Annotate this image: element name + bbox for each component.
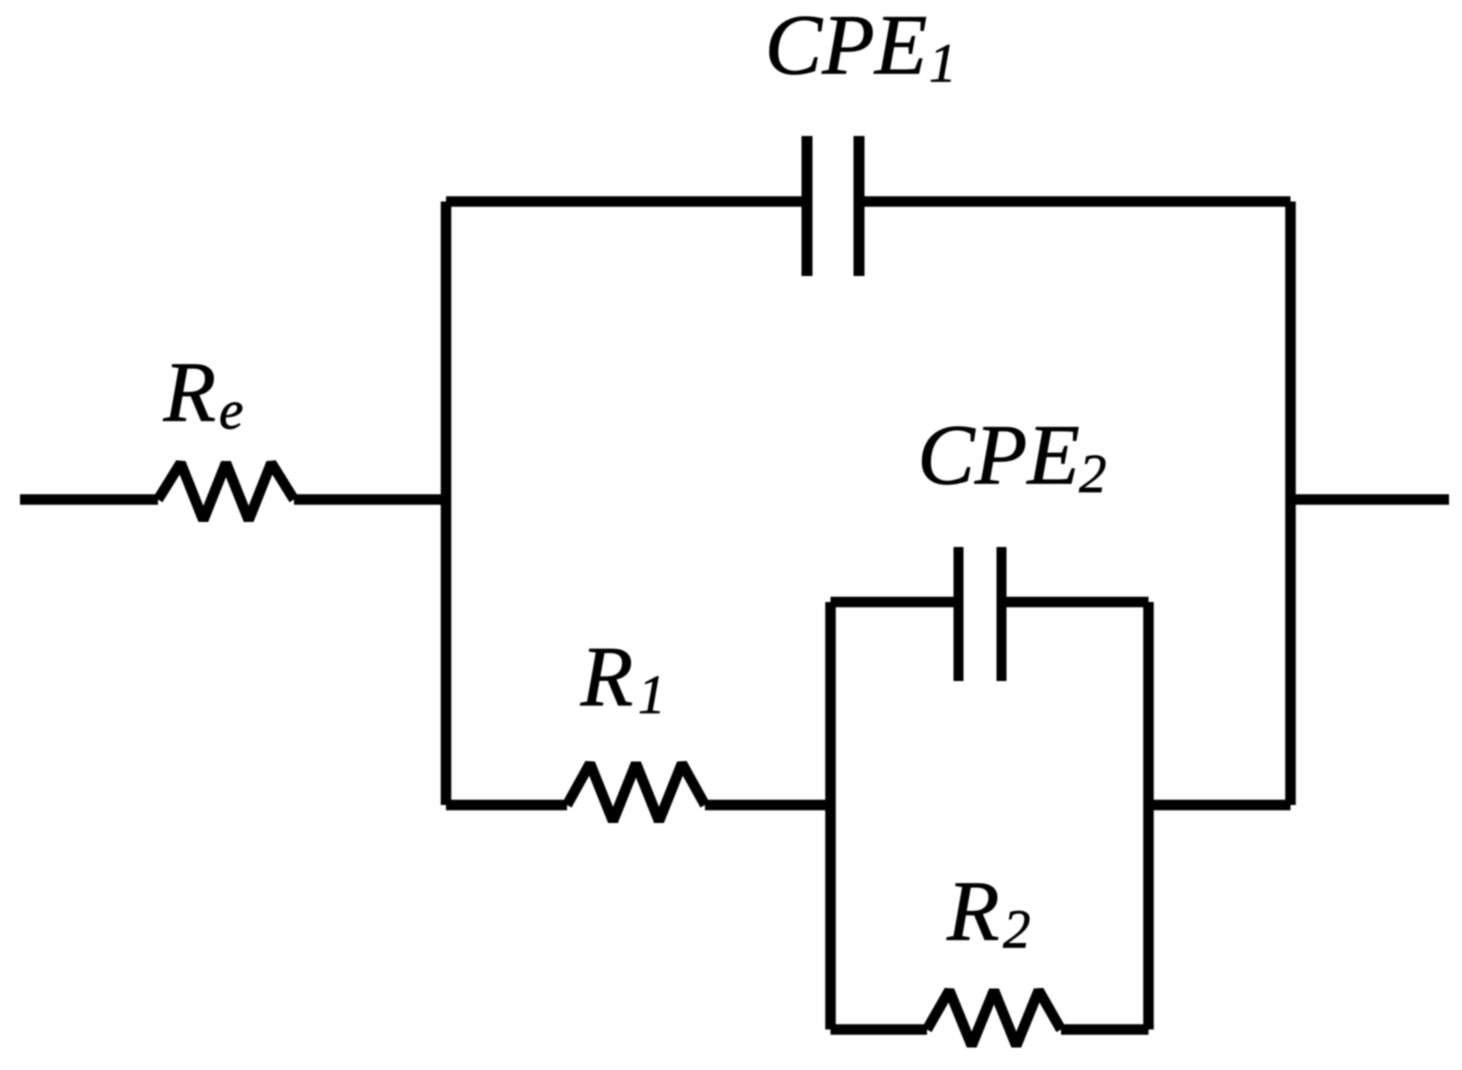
capacitor CPE1 right plate [854, 136, 865, 276]
svg-text:CPE: CPE [917, 407, 1079, 503]
resistor Re [158, 463, 294, 520]
capacitor CPE2 left plate [954, 547, 964, 681]
node B: outer parallel box right vertical [1285, 202, 1296, 806]
svg-text:R: R [946, 863, 1000, 959]
svg-text:R: R [163, 344, 217, 440]
svg-text:R: R [580, 628, 634, 724]
inner parallel box right vertical [1143, 602, 1154, 1030]
wire: outer box top right segment from CPE1 [859, 196, 1291, 207]
svg-text:CPE: CPE [765, 0, 927, 93]
wire: R1 to inner box [705, 800, 831, 811]
svg-text:e: e [219, 380, 243, 441]
wire: left input lead [20, 494, 158, 505]
wire: inner box bottom right segment [1061, 1024, 1149, 1035]
inner parallel box left vertical [825, 602, 836, 1030]
wire: inner box top left segment to CPE2 [831, 597, 959, 608]
wire: bottom branch left segment [446, 800, 567, 811]
node A: outer parallel box left vertical [441, 202, 452, 806]
wire: right output lead [1291, 494, 1450, 505]
wire: inner box top right segment from CPE2 [1002, 597, 1149, 608]
svg-text:1: 1 [929, 33, 957, 94]
wire: outer box top left segment to CPE1 [446, 196, 807, 207]
svg-text:2: 2 [1003, 899, 1031, 960]
resistor R2 [927, 991, 1061, 1046]
resistor R1 [567, 764, 705, 822]
capacitor CPE2 right plate [997, 547, 1007, 681]
wire: inner box to outer box right vertical [1149, 800, 1291, 811]
svg-text:1: 1 [638, 664, 666, 725]
capacitor CPE1 left plate [802, 136, 813, 276]
wire: inner box bottom left segment [831, 1024, 928, 1035]
wire: Re to node A [294, 494, 446, 505]
svg-text:2: 2 [1079, 443, 1107, 504]
